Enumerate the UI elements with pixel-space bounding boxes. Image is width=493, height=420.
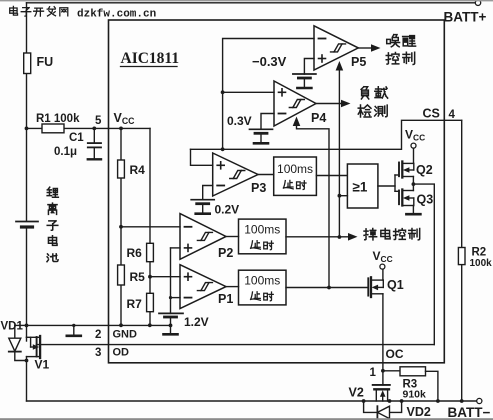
svg-text:Q1: Q1	[387, 278, 404, 292]
svg-text:GND: GND	[113, 329, 138, 341]
svg-text:C1: C1	[69, 132, 84, 144]
svg-text:V1: V1	[35, 358, 50, 372]
svg-text:4: 4	[449, 109, 456, 121]
svg-text:P2: P2	[218, 246, 233, 260]
svg-text:R2: R2	[472, 247, 487, 259]
svg-text:BATT−: BATT−	[448, 405, 491, 420]
svg-text:100ms: 100ms	[277, 162, 313, 176]
svg-text:≥1: ≥1	[353, 180, 368, 195]
svg-text:100ms: 100ms	[244, 222, 280, 236]
svg-text:910k: 910k	[403, 389, 427, 401]
svg-text:0.1μ: 0.1μ	[54, 146, 77, 158]
svg-text:P5: P5	[351, 55, 366, 69]
svg-text:R5: R5	[130, 270, 146, 284]
svg-text:V2: V2	[349, 386, 364, 400]
svg-text:FU: FU	[37, 55, 54, 69]
svg-text:OD: OD	[113, 347, 130, 359]
svg-text:R1 100k: R1 100k	[36, 113, 80, 125]
svg-text:P4: P4	[311, 111, 326, 125]
svg-text:R6: R6	[127, 246, 143, 260]
svg-text:VD2: VD2	[407, 405, 431, 419]
svg-text:0.2V: 0.2V	[215, 203, 240, 217]
svg-text:1: 1	[370, 367, 377, 379]
svg-text:R4: R4	[130, 163, 146, 177]
svg-text:OC: OC	[386, 347, 404, 361]
svg-text:dzkfw.com.cn: dzkfw.com.cn	[77, 9, 156, 21]
svg-text:0.3V: 0.3V	[227, 114, 252, 128]
svg-text:Q3: Q3	[417, 193, 434, 207]
svg-text:1.2V: 1.2V	[184, 315, 209, 329]
svg-text:−0.3V: −0.3V	[252, 54, 287, 69]
svg-text:100ms: 100ms	[244, 274, 280, 288]
svg-text:P1: P1	[218, 292, 233, 306]
svg-text:Q2: Q2	[416, 163, 433, 177]
svg-text:VD1: VD1	[1, 321, 24, 333]
svg-text:2: 2	[95, 329, 101, 341]
svg-text:P3: P3	[251, 181, 266, 195]
svg-text:CS: CS	[423, 107, 440, 121]
svg-text:BATT+: BATT+	[444, 10, 487, 25]
svg-text:AIC1811: AIC1811	[121, 50, 180, 67]
svg-text:R7: R7	[127, 297, 143, 311]
svg-text:100k: 100k	[470, 258, 493, 269]
svg-text:3: 3	[95, 347, 101, 359]
svg-text:5: 5	[95, 115, 102, 127]
